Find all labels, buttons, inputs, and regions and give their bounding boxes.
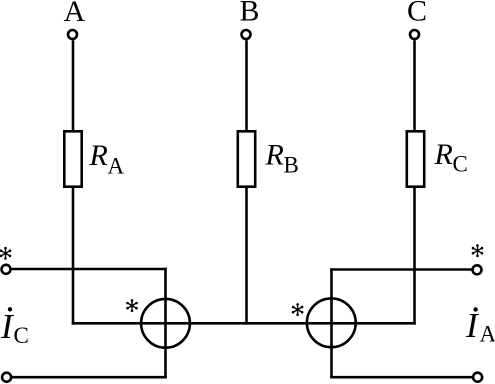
svg-text:R: R [89,139,108,172]
current coil W1 (left circle) [141,299,190,348]
svg-text:C: C [453,152,468,177]
wire RC down to bus [413,187,416,325]
wire C terminal to RC [413,40,416,131]
terminal left top [2,265,11,274]
wire W2 secondary vertical [330,268,333,377]
terminal B [242,30,251,39]
svg-text:R: R [265,139,284,172]
wire RA down to bus [72,187,75,325]
svg-text:R: R [434,138,453,171]
terminal C [410,30,419,39]
terminal right top [473,265,482,274]
terminal left bottom [2,373,11,382]
wire RB down to bus (tee) [245,187,248,325]
wire left bottom from W1 to terminal [11,376,167,379]
terminal A [68,30,77,39]
wire W1 secondary vertical [164,268,167,378]
label IA current [465,306,495,347]
svg-text:A: A [108,154,125,179]
svg-text:A: A [480,322,495,347]
current coil W2 (right circle) [307,298,356,347]
svg-text:B: B [284,153,299,178]
resistor RC [407,131,424,186]
svg-text:A: A [64,0,86,28]
wire right top from W2 to terminal [330,268,471,271]
resistor RA [64,131,81,186]
resistor RB [238,131,255,186]
polarity asterisk at left top terminal [0,247,11,260]
wire horizontal bus joining phases through both coils [72,322,416,325]
polarity asterisk of W2 [292,303,304,316]
wire B terminal to RB [245,40,248,131]
label IC current [0,307,29,348]
svg-text:B: B [239,0,259,28]
polarity asterisk of W1 [126,299,138,312]
wire left top from terminal to W1 [11,268,167,271]
terminal right bottom [473,373,482,382]
polarity asterisk at right top terminal [472,244,484,257]
wire right bottom from W2 to terminal [330,376,472,379]
svg-text:C: C [14,323,29,348]
svg-text:C: C [407,0,427,28]
wire A terminal to RA [72,40,75,131]
